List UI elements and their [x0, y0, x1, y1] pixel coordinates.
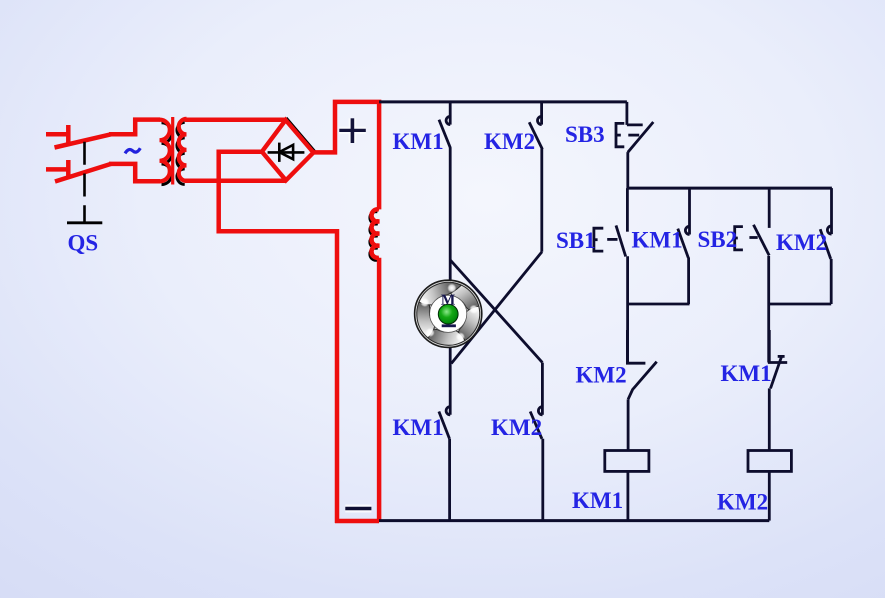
red DC bus bottom bar	[335, 519, 379, 523]
svg-text:QS: QS	[68, 231, 99, 256]
parallel connector left pair	[627, 303, 689, 306]
contactor aux contact KM2 (NO seal-in)	[820, 188, 831, 304]
switch QS pole 1 (red knife contact, upper)	[46, 125, 111, 148]
contactor aux contact KM1 (NO seal-in)	[678, 188, 690, 304]
wire KM1 upper to motor node	[449, 148, 452, 415]
rectifier bridge VC diamond	[262, 120, 314, 180]
svg-text:KM1: KM1	[572, 488, 623, 513]
svg-text:SB1: SB1	[556, 228, 596, 253]
wire KM2 upper down	[540, 149, 543, 252]
svg-text:KM2: KM2	[484, 129, 535, 154]
pushbutton SB1 (NO start fwd)	[594, 188, 628, 256]
interlock contact KM1 (NC)	[769, 330, 787, 451]
contactor contact KM2 lower (NO)	[530, 407, 543, 521]
crossing wire B (right upper to left node)	[451, 252, 542, 364]
inductor L on negative rail	[372, 209, 380, 258]
control rail 2	[627, 187, 832, 190]
QS mechanical link (black dashed)	[83, 142, 86, 223]
wire coil KM1 to bottom bus	[627, 471, 630, 520]
wire QS pole1 to transformer primary top	[109, 120, 160, 135]
wire inductor to bottom	[377, 258, 382, 521]
AC tilde symbol	[125, 148, 140, 153]
wire rectifier right corner to plus bus	[312, 102, 379, 209]
transformer core line	[171, 117, 174, 185]
svg-text:KM2: KM2	[576, 363, 627, 388]
bottom return bus (black)	[379, 519, 769, 522]
wire right lower vertical	[541, 363, 544, 415]
svg-text:KM2: KM2	[491, 415, 542, 440]
svg-text:KM2: KM2	[717, 490, 768, 515]
coil KM1	[605, 451, 649, 472]
svg-text:KM1: KM1	[393, 129, 444, 154]
switch QS pole 2 (red knife contact, lower)	[46, 160, 111, 182]
wire secondary top to rectifier top corner	[185, 118, 286, 123]
transformer secondary winding shadow	[177, 122, 185, 184]
svg-text:KM1: KM1	[721, 361, 772, 386]
minus terminal label	[345, 505, 371, 513]
parallel connector right pair	[768, 303, 831, 306]
wire QS pole2 to transformer primary bottom	[109, 164, 160, 181]
contactor contact KM2 upper (NO)	[529, 102, 542, 149]
transformer T primary winding	[160, 120, 170, 182]
top DC bus (black)	[379, 100, 627, 103]
svg-text:KM2: KM2	[776, 230, 827, 255]
interlock contact KM2 (NC)	[627, 330, 656, 451]
inductor L shadow	[370, 212, 378, 261]
wire coil KM2 to bottom bus	[768, 471, 771, 520]
transformer T primary winding shadow	[162, 123, 172, 185]
pushbutton SB2 (NO start rev)	[735, 188, 770, 255]
contactor contact KM1 lower (NO)	[439, 407, 450, 521]
svg-text:SB3: SB3	[565, 122, 605, 147]
svg-text:KM1: KM1	[393, 415, 444, 440]
svg-text:SB2: SB2	[698, 227, 738, 252]
rectifier bridge VC diamond shadow	[264, 119, 316, 179]
svg-text:KM1: KM1	[632, 228, 683, 253]
ground bar under QS	[67, 221, 102, 224]
coil KM2	[748, 451, 791, 472]
contactor contact KM1 upper (NO)	[439, 102, 450, 148]
motor M icon	[404, 274, 487, 357]
pushbutton SB3 (NC)	[616, 102, 653, 188]
diode symbol inside bridge	[268, 143, 305, 162]
crossing wire A (left node to right lower)	[450, 260, 542, 363]
wire SB1 down to KM2 NC	[626, 256, 629, 363]
wire SB2 down to KM1 NC	[767, 256, 770, 363]
wire rectifier left corner to negative loop	[219, 152, 337, 523]
transformer secondary winding	[179, 119, 187, 181]
plus terminal label	[339, 118, 366, 143]
wire secondary bottom to rectifier bottom corner	[185, 178, 286, 183]
